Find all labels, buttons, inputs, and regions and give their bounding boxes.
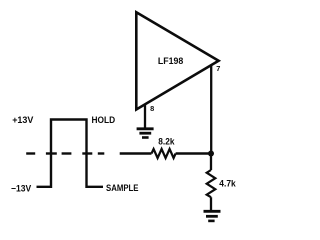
- svg-text:HOLD: HOLD: [92, 115, 116, 125]
- ground (under pin 8): [137, 129, 154, 138]
- resistor R1 value label 8.2k: [158, 136, 175, 146]
- svg-text:LF198: LF198: [158, 56, 183, 66]
- svg-text:+13V: +13V: [12, 115, 33, 125]
- wire (resistor R2 to ground): [210, 197, 212, 210]
- pin 8 label: [150, 104, 154, 113]
- svg-text:4.7k: 4.7k: [219, 179, 236, 189]
- dashed baseline (zero level): [26, 152, 104, 154]
- -13V level label: [11, 183, 31, 193]
- +13V level label: [12, 115, 33, 125]
- pin 7 wire (output, apex to node): [210, 66, 212, 154]
- wire (node A to resistor R2): [210, 154, 212, 171]
- node A (junction dot): [208, 151, 214, 157]
- svg-text:8.2k: 8.2k: [158, 136, 175, 146]
- wire (input to resistor R1): [120, 152, 152, 154]
- svg-text:−13V: −13V: [11, 183, 31, 193]
- pin 8 wire: [144, 105, 146, 129]
- SAMPLE label: [106, 183, 139, 193]
- HOLD label: [92, 115, 116, 125]
- op-amp U1 (LF198 triangle): [136, 12, 218, 109]
- op-amp label LF198: [158, 56, 183, 66]
- ground (bottom right): [204, 211, 221, 221]
- resistor R2 4.7k (vertical zigzag): [207, 170, 216, 197]
- svg-text:7: 7: [216, 64, 220, 73]
- pin 7 label: [216, 64, 220, 73]
- wire (resistor R1 to node A): [176, 152, 211, 154]
- resistor R2 value label 4.7k: [219, 179, 236, 189]
- svg-text:SAMPLE: SAMPLE: [106, 183, 139, 193]
- resistor R1 8.2k (zigzag): [152, 149, 176, 158]
- input pulse waveform: [37, 120, 104, 187]
- svg-text:8: 8: [150, 104, 154, 113]
